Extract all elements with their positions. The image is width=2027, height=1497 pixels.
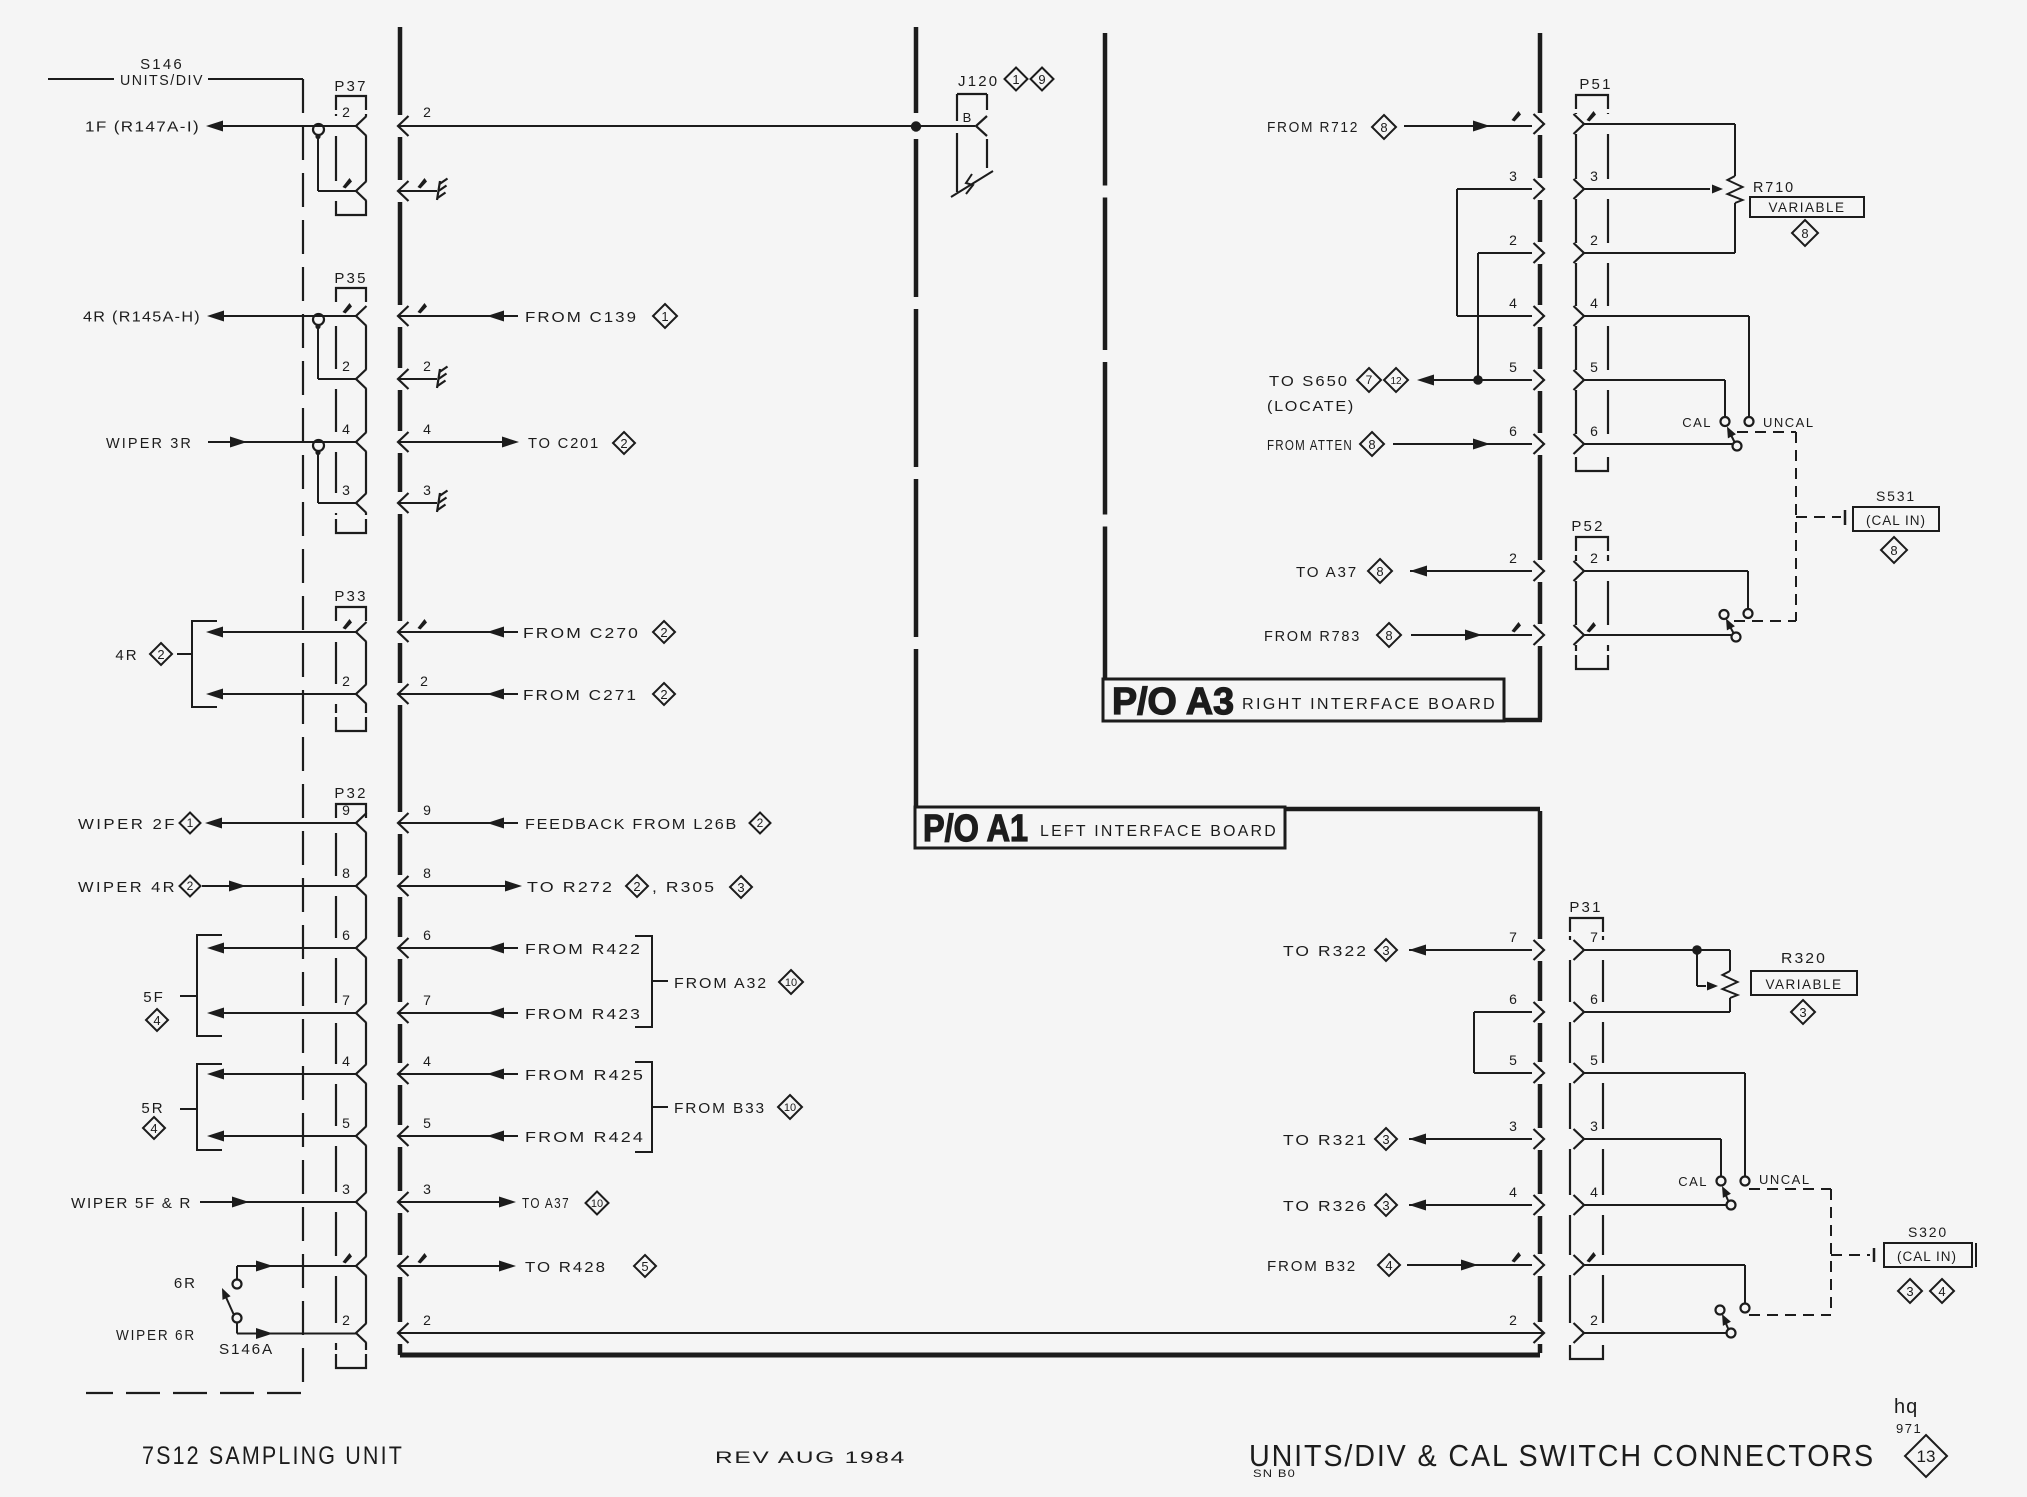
svg-text:S146: S146 xyxy=(140,56,184,73)
svg-text:1F (R147A-I): 1F (R147A-I) xyxy=(85,119,200,136)
svg-text:2: 2 xyxy=(1590,1312,1598,1328)
arrow FROM B32 xyxy=(1461,1260,1478,1271)
arrow 5F-b xyxy=(207,1008,224,1019)
svg-text:P32: P32 xyxy=(334,785,367,802)
wire P31 comma pin to S320-B UNCAL xyxy=(1584,1264,1745,1266)
P37 pin 2 chevron xyxy=(356,116,367,136)
reference diamond 10 (B33) xyxy=(778,1095,802,1119)
svg-text:3: 3 xyxy=(1382,943,1389,958)
svg-text:P35: P35 xyxy=(334,270,367,287)
svg-text:4R: 4R xyxy=(115,647,138,664)
wire S146-1F to P37 pin 2 xyxy=(223,125,356,127)
svg-text:5: 5 xyxy=(1590,359,1598,375)
svg-text:2: 2 xyxy=(423,1312,431,1328)
svg-text:REV AUG 1984: REV AUG 1984 xyxy=(715,1449,906,1467)
arrow 5R-a xyxy=(207,1069,224,1080)
svg-text:8: 8 xyxy=(1385,628,1392,643)
svg-text:3: 3 xyxy=(1382,1198,1389,1213)
reference diamond 4 (5F) xyxy=(146,1009,168,1031)
arrow to 1F xyxy=(206,121,223,132)
reference diamond 1 (wiper 2F) xyxy=(180,813,201,834)
reference diamond 10 (A32) xyxy=(779,970,803,994)
svg-text:3: 3 xyxy=(737,880,744,895)
svg-text:3: 3 xyxy=(423,482,431,498)
svg-text:9: 9 xyxy=(342,802,350,818)
P52 comma pin chevrons and marks xyxy=(1512,622,1522,633)
arrow FROM C139 xyxy=(487,311,504,322)
reference diamond 4 (S320) xyxy=(1930,1279,1954,1303)
arrow TO R321 xyxy=(1409,1134,1426,1145)
wire 1F contact to P37 bottom pin xyxy=(317,138,319,191)
svg-text:2: 2 xyxy=(1509,1312,1517,1328)
switch S320-A wiper arm xyxy=(1724,1191,1729,1202)
wire P37 pin 2 to J120 pin B xyxy=(398,125,975,127)
wire FROM ATTEN to P51 pin 6 xyxy=(1393,443,1532,445)
ground (P35 pin 2) xyxy=(437,369,440,388)
connector J120 outline xyxy=(956,94,958,121)
P/O A1 board bottom edge xyxy=(400,1353,1540,1358)
arrow TO A37 xyxy=(499,1197,516,1208)
node R422/R423 group bracket (FROM A32) xyxy=(635,936,652,1027)
P35 pin 4 chevron xyxy=(356,432,367,452)
svg-text:P33: P33 xyxy=(334,588,367,605)
P37 bottom pin comma mark (connector side) xyxy=(343,178,353,189)
svg-text:FROM B32: FROM B32 xyxy=(1267,1258,1357,1275)
svg-text:TO R321: TO R321 xyxy=(1283,1132,1368,1149)
svg-text:FROM R422: FROM R422 xyxy=(525,941,642,958)
svg-text:4: 4 xyxy=(1385,1258,1392,1273)
wire P51 top pin to R710 top xyxy=(1584,123,1735,125)
wire jumper P31 pin6 to pin5 (harness) xyxy=(1474,1011,1532,1013)
wire jumper P51 pin3 to pin4 (harness) xyxy=(1457,188,1532,190)
svg-text:R320: R320 xyxy=(1781,950,1827,967)
svg-text:UNCAL: UNCAL xyxy=(1763,415,1815,430)
reference diamond 10 (A37) xyxy=(586,1192,609,1215)
svg-text:5: 5 xyxy=(1509,1052,1517,1068)
wire FROM C270 into board xyxy=(398,631,518,633)
svg-text:5: 5 xyxy=(1509,359,1517,375)
wire 4R contact to P35 pin 2 xyxy=(317,328,319,379)
wire P51 pin 3 to R710 wiper xyxy=(1584,188,1710,190)
svg-text:J120: J120 xyxy=(958,73,999,90)
P35 top pin comma marks xyxy=(343,303,353,314)
svg-text:6: 6 xyxy=(1509,423,1517,439)
svg-text:WIPER 5F & R: WIPER 5F & R xyxy=(71,1195,192,1212)
svg-text:, R305: , R305 xyxy=(652,879,716,896)
reference diamond 13 (sheet) xyxy=(1905,1435,1947,1477)
svg-text:2: 2 xyxy=(633,879,640,894)
svg-text:FROM A32: FROM A32 xyxy=(674,975,768,992)
reference diamond 8 (R712) xyxy=(1372,115,1396,139)
arrow FROM C270 xyxy=(487,627,504,638)
svg-text:3: 3 xyxy=(1509,1118,1517,1134)
reference diamond 4 (B32) xyxy=(1378,1254,1400,1276)
P/O A1 left interface board edge (left, mates P37/P35/P33/P32) xyxy=(398,27,403,115)
reference diamond 8 (S531) xyxy=(1881,537,1907,563)
svg-text:P51: P51 xyxy=(1579,76,1612,93)
svg-text:P52: P52 xyxy=(1571,518,1604,535)
junction dot at A1 board edge feed-through xyxy=(911,121,921,131)
svg-text:TO R428: TO R428 xyxy=(525,1259,607,1276)
arrow TO C201 xyxy=(502,437,519,448)
svg-text:6: 6 xyxy=(1590,423,1598,439)
switch S531-B UNCAL contact xyxy=(1744,609,1753,618)
P35 pin 4 board-edge chevron xyxy=(398,432,409,452)
svg-text:12: 12 xyxy=(1390,376,1402,387)
reference diamond 3 (R326) xyxy=(1375,1194,1397,1216)
svg-text:UNITS/DIV & CAL SWITCH CONNEC: UNITS/DIV & CAL SWITCH CONNECTORS xyxy=(1249,1438,1875,1473)
wire S146A 6R contact to P32 comma pin xyxy=(236,1266,238,1279)
switch S146A wiper contact xyxy=(233,1314,242,1323)
arrow FROM C271 xyxy=(487,689,504,700)
svg-text:4R (R145A-H): 4R (R145A-H) xyxy=(83,309,201,326)
svg-text:13: 13 xyxy=(1917,1447,1936,1466)
svg-text:8: 8 xyxy=(1368,437,1375,452)
svg-text:FROM R425: FROM R425 xyxy=(525,1067,645,1084)
P35 pin 3 board-edge chevron xyxy=(398,493,409,513)
wire 5R-b to P32 pin 5 xyxy=(223,1135,356,1137)
svg-text:2: 2 xyxy=(1590,232,1598,248)
arrow FROM R712 xyxy=(1473,121,1490,132)
svg-text:3: 3 xyxy=(1906,1284,1913,1299)
switch S320-B common contact xyxy=(1727,1329,1736,1338)
svg-text:LEFT INTERFACE BOARD: LEFT INTERFACE BOARD xyxy=(1040,823,1278,840)
reference diamond 2 (C271) xyxy=(653,683,675,705)
P35 top pin board-edge chevron xyxy=(398,306,409,326)
connector P52 outline xyxy=(1576,537,1608,551)
svg-text:B: B xyxy=(963,110,972,125)
svg-text:8: 8 xyxy=(1890,543,1897,558)
svg-text:3: 3 xyxy=(1382,1132,1389,1147)
svg-text:2: 2 xyxy=(423,104,431,120)
svg-text:FROM R712: FROM R712 xyxy=(1267,119,1359,136)
switch S146A wiper arm xyxy=(225,1295,234,1314)
wire P31 pin 3 to S320-A CAL xyxy=(1584,1138,1721,1140)
wire TO R428 from board xyxy=(398,1265,500,1267)
svg-text:P/O A3: P/O A3 xyxy=(1112,681,1234,723)
svg-text:TO A37: TO A37 xyxy=(1296,564,1358,581)
wire FROM C139 into board xyxy=(398,315,518,317)
svg-text:2: 2 xyxy=(342,104,350,120)
svg-text:(LOCATE): (LOCATE) xyxy=(1267,398,1355,415)
wire FROM C271 into board xyxy=(398,693,518,695)
wire FROM R783 to P52 comma pin xyxy=(1411,634,1532,636)
reference diamond 12 (S650) xyxy=(1384,368,1408,392)
wire P35 pin 3 to ground xyxy=(398,502,437,504)
P37 bottom pin board-edge chevron xyxy=(398,181,409,201)
svg-text:FROM C271: FROM C271 xyxy=(523,687,638,704)
switch S531-B wiper arm xyxy=(1728,623,1734,633)
switch S531-B common contact xyxy=(1732,633,1741,642)
svg-text:4: 4 xyxy=(1509,295,1517,311)
wire WIPER 4R to P32 pin 8 xyxy=(202,885,356,887)
node S146 wafer contact 4R xyxy=(313,314,324,325)
switch S320 (CAL IN) box xyxy=(1884,1243,1972,1267)
svg-text:2: 2 xyxy=(660,687,667,702)
wire TO R326 from P31 pin 4 xyxy=(1409,1204,1532,1206)
reference diamond 3 (R322) xyxy=(1375,939,1397,961)
switch S531 (CAL IN) box xyxy=(1853,507,1939,531)
junction dot pin5/jumper xyxy=(1473,375,1483,385)
arrow WIPER 5F&R xyxy=(232,1197,249,1208)
potentiometer R710 xyxy=(1728,176,1743,203)
P37 pin 2 board-edge chevron xyxy=(398,116,409,136)
svg-text:P37: P37 xyxy=(334,78,367,95)
svg-text:9: 9 xyxy=(1038,72,1045,87)
wire P31 pin 4 to S320-A arm xyxy=(1584,1204,1727,1206)
svg-text:4: 4 xyxy=(342,1053,350,1069)
svg-text:4: 4 xyxy=(1509,1184,1517,1200)
mechanical linkage S531-B (dashed) xyxy=(1734,620,1796,622)
S146 switch wafer dashed line xyxy=(86,79,303,1393)
wire 4R-a to P33 top pin xyxy=(222,631,356,633)
svg-text:4: 4 xyxy=(1590,1184,1598,1200)
wire FROM R423 into board xyxy=(398,1012,518,1014)
reference diamond 8 (R710) xyxy=(1792,220,1818,246)
P/O A3 board bottom edge segment xyxy=(1504,718,1542,723)
P33 top pin comma marks xyxy=(343,619,353,630)
arrow 4R-b xyxy=(206,689,223,700)
wire 4R label tie xyxy=(177,653,192,655)
wire FEEDBACK FROM L26B into board xyxy=(398,822,518,824)
svg-text:SN B0: SN B0 xyxy=(1253,1468,1296,1480)
wire 5R label tie xyxy=(180,1108,197,1110)
wire WIPER 2F to P32 pin 9 xyxy=(221,822,356,824)
reference diamond 2 (C270) xyxy=(653,621,675,643)
reference diamond 4 (5R) xyxy=(143,1117,165,1139)
connector P33 outline xyxy=(336,607,366,621)
wire WIPER 3R to P35 pin 4 xyxy=(208,441,356,443)
svg-text:4: 4 xyxy=(423,421,431,437)
mechanical linkage S320-B (dashed) xyxy=(1749,1314,1831,1316)
svg-text:4: 4 xyxy=(153,1013,160,1028)
svg-text:TO R326: TO R326 xyxy=(1283,1198,1368,1215)
wire P32 pin 2 to P31 pin 2 (board trace) xyxy=(398,1332,1544,1334)
svg-text:VARIABLE: VARIABLE xyxy=(1768,200,1845,215)
svg-text:WIPER 4R: WIPER 4R xyxy=(78,879,177,896)
reference diamond 3 (R321) xyxy=(1375,1128,1397,1150)
connector P32 outline xyxy=(336,804,366,818)
svg-text:WIPER 3R: WIPER 3R xyxy=(106,435,193,452)
wire TO C201 from board xyxy=(398,441,503,443)
svg-text:5: 5 xyxy=(1590,1052,1598,1068)
ground (P35 pin 3) xyxy=(437,493,440,512)
wire P31 pin 7 to R320 top xyxy=(1584,949,1730,951)
potentiometer R320 xyxy=(1723,971,1738,998)
arrow FROM R423 xyxy=(487,1008,504,1019)
P37 bottom pin chevron xyxy=(356,181,367,201)
svg-text:4: 4 xyxy=(423,1053,431,1069)
svg-text:5F: 5F xyxy=(143,989,165,1006)
switch S531-A common contact xyxy=(1733,442,1742,451)
svg-text:7: 7 xyxy=(423,992,431,1008)
reference diamond 8 (R783) xyxy=(1377,623,1401,647)
P33 pin 2 chevron xyxy=(356,684,367,704)
switch S146A 6R contact xyxy=(233,1280,242,1289)
J120 cable break symbol xyxy=(951,171,993,197)
svg-text:3: 3 xyxy=(1509,168,1517,184)
svg-text:2: 2 xyxy=(757,816,764,830)
svg-text:10: 10 xyxy=(591,1198,603,1210)
wire S146A wiper to P32 pin 2 xyxy=(236,1323,238,1334)
svg-text:TO C201: TO C201 xyxy=(528,435,600,452)
reference diamond 3 (R320) xyxy=(1791,1000,1815,1024)
wire R710 bottom to P51 pin 2 xyxy=(1734,203,1736,253)
svg-text:5R: 5R xyxy=(141,1100,164,1117)
svg-text:(CAL IN): (CAL IN) xyxy=(1897,1249,1957,1264)
svg-text:TO A37: TO A37 xyxy=(522,1195,570,1212)
svg-text:2: 2 xyxy=(423,358,431,374)
svg-text:8: 8 xyxy=(342,865,350,881)
mechanical linkage S320 (dashed) xyxy=(1749,1189,1870,1315)
arrow FROM R425 xyxy=(487,1069,504,1080)
svg-text:6: 6 xyxy=(423,927,431,943)
wire FROM B32 to P31 comma pin xyxy=(1407,1264,1532,1266)
ground (P37 return) xyxy=(437,181,440,200)
arrow FROM R424 xyxy=(487,1131,504,1142)
junction dot R320 wiper tie xyxy=(1692,945,1702,955)
svg-text:FROM R424: FROM R424 xyxy=(525,1129,645,1146)
svg-text:2: 2 xyxy=(1509,232,1517,248)
svg-text:10: 10 xyxy=(785,977,797,989)
wire P31 pin 5 to S320-A UNCAL xyxy=(1584,1072,1745,1074)
svg-text:UNCAL: UNCAL xyxy=(1759,1172,1811,1187)
svg-text:WIPER 2F: WIPER 2F xyxy=(78,816,177,833)
svg-text:6: 6 xyxy=(1509,991,1517,1007)
J120 pin B chevron xyxy=(976,116,987,136)
arrow wiper 6R wire xyxy=(256,1328,273,1339)
svg-text:6R: 6R xyxy=(174,1275,197,1292)
wire TO R321 from P31 pin 3 xyxy=(1409,1138,1532,1140)
svg-text:R710: R710 xyxy=(1753,179,1795,196)
svg-text:5: 5 xyxy=(423,1115,431,1131)
arrow 6R wire xyxy=(256,1261,273,1272)
wire FROM R425 into board xyxy=(398,1073,518,1075)
svg-text:7: 7 xyxy=(1590,929,1598,945)
svg-text:FROM B33: FROM B33 xyxy=(674,1100,766,1117)
svg-text:TO R322: TO R322 xyxy=(1283,943,1368,960)
wire TO S650 from P51 pin 5 xyxy=(1433,379,1532,381)
svg-text:1: 1 xyxy=(187,816,194,830)
wire 5F-a to P32 pin 6 xyxy=(223,947,356,949)
wire P51 pin 4 to UNCAL contact xyxy=(1584,315,1749,317)
node 5R group bracket xyxy=(197,1064,222,1150)
reference diamond 2 (R272) xyxy=(626,875,648,897)
arrow to 4R xyxy=(207,311,224,322)
svg-text:3: 3 xyxy=(1799,1005,1806,1020)
P33 top pin board-edge chevron xyxy=(398,622,409,642)
wire 4R-b to P33 pin 2 xyxy=(222,693,356,695)
svg-text:TO S650: TO S650 xyxy=(1269,373,1349,390)
svg-text:10: 10 xyxy=(784,1102,796,1114)
svg-text:S320: S320 xyxy=(1908,1224,1948,1240)
P35 pin 3 chevron xyxy=(356,493,367,513)
wire FROM R424 into board xyxy=(398,1135,518,1137)
wire FROM R422 into board xyxy=(398,947,518,949)
svg-text:2: 2 xyxy=(342,673,350,689)
P/O A1 board right edge (mates P31) xyxy=(1538,811,1543,939)
svg-text:3: 3 xyxy=(423,1181,431,1197)
svg-text:3: 3 xyxy=(342,482,350,498)
arrow 4R-a xyxy=(206,627,223,638)
wire 3R contact to P35 pin 3 xyxy=(317,454,319,503)
svg-text:1: 1 xyxy=(1012,72,1019,87)
wire TO A37 from board xyxy=(398,1201,500,1203)
wire P35 pin 2 to ground xyxy=(398,378,437,380)
wire 5F label tie xyxy=(180,995,197,997)
switch S320-A UNCAL contact xyxy=(1741,1177,1750,1186)
switch S320-B CAL contact xyxy=(1716,1306,1725,1315)
reference diamond 8 (ATTEN) xyxy=(1360,432,1384,456)
arrow FEEDBACK xyxy=(487,818,504,829)
wire TO R322 from P31 pin 7 xyxy=(1409,949,1532,951)
svg-text:4: 4 xyxy=(150,1121,157,1136)
svg-text:2: 2 xyxy=(342,358,350,374)
wire P52 pin 2 to S531-B UNCAL xyxy=(1584,570,1748,572)
wire TO R272 R305 from board xyxy=(398,885,506,887)
svg-text:4: 4 xyxy=(1590,295,1598,311)
switch S320-B wiper arm xyxy=(1724,1319,1729,1330)
value label VARIABLE (R710) xyxy=(1750,197,1864,217)
arrow WIPER 4R xyxy=(229,881,246,892)
P31 comma pin chevrons and marks xyxy=(1512,1252,1522,1263)
svg-text:2: 2 xyxy=(342,1312,350,1328)
svg-text:5: 5 xyxy=(641,1259,648,1274)
svg-text:WIPER 6R: WIPER 6R xyxy=(116,1327,196,1344)
P32 comma pin chevrons and marks xyxy=(343,1253,353,1264)
svg-text:7: 7 xyxy=(1509,929,1517,945)
connector P31 outline xyxy=(1570,918,1603,932)
node S146 wafer contact 3R xyxy=(313,440,324,451)
node R425/R424 group bracket (FROM B33) xyxy=(635,1062,652,1152)
svg-text:3: 3 xyxy=(342,1181,350,1197)
arrow TO S650 xyxy=(1417,375,1434,386)
P33 pin 2 board-edge chevron xyxy=(398,684,409,704)
P/O A3 right board edge (mates P51/P52) xyxy=(1538,33,1543,113)
svg-text:UNITS/DIV: UNITS/DIV xyxy=(120,72,204,89)
arrow TO A37 (P52) xyxy=(1410,566,1427,577)
connector P37 outline xyxy=(336,96,366,110)
svg-text:8: 8 xyxy=(1380,120,1387,135)
wire S146-4R to P35 top pin xyxy=(224,315,356,317)
wire WIPER 5F&R to P32 pin 3 xyxy=(200,1201,356,1203)
svg-text:5: 5 xyxy=(342,1115,350,1131)
wire R320 wiper xyxy=(1696,950,1698,986)
arrow 5R-b xyxy=(207,1131,224,1142)
arrow FROM ATTEN xyxy=(1473,439,1490,450)
svg-text:(CAL IN): (CAL IN) xyxy=(1866,513,1926,528)
reference diamond 3 (R305) xyxy=(730,876,752,898)
svg-text:4: 4 xyxy=(1938,1284,1945,1299)
svg-text:8: 8 xyxy=(423,865,431,881)
P/O A3 label box RIGHT INTERFACE BOARD xyxy=(1103,679,1504,721)
svg-text:2: 2 xyxy=(420,673,428,689)
switch S146 UNITS/DIV header label xyxy=(48,78,114,80)
P33 top pin chevron xyxy=(356,622,367,642)
switch S320-A CAL contact xyxy=(1717,1177,1726,1186)
P35 pin 2 board-edge chevron xyxy=(398,369,409,389)
arrow FROM R783 xyxy=(1465,630,1482,641)
svg-text:8: 8 xyxy=(1801,226,1808,241)
arrow to WIPER 2F xyxy=(205,818,222,829)
svg-text:hq: hq xyxy=(1894,1396,1918,1418)
svg-text:7: 7 xyxy=(1366,373,1373,387)
switch S531-B CAL contact xyxy=(1720,610,1729,619)
P37 bottom pin comma mark (board side) xyxy=(418,178,428,189)
wire FROM R712 to P51 top pin xyxy=(1404,125,1532,127)
wire 5F-b to P32 pin 7 xyxy=(223,1012,356,1014)
wire P52 comma pin to S531-B arm xyxy=(1584,634,1731,636)
